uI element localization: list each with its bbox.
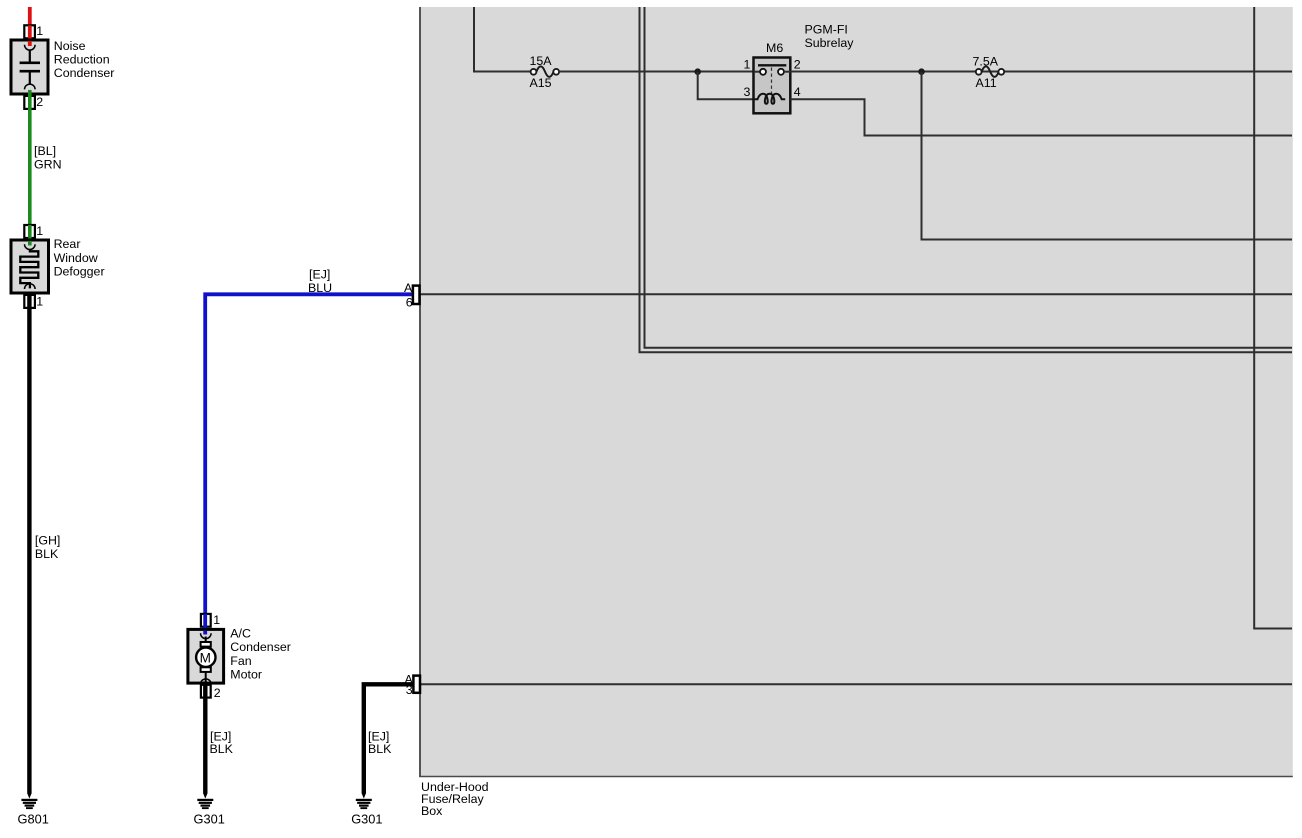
svg-text:1: 1 — [744, 57, 751, 71]
relay pin number 2 — [794, 57, 801, 71]
wire [EJ] BLK (fuse box A3 ground) — [364, 684, 413, 793]
svg-text:2: 2 — [36, 95, 43, 109]
svg-text:BLK: BLK — [368, 742, 392, 756]
relay contact terminal pin 2 — [778, 69, 790, 75]
fuse A15 15A — [530, 54, 560, 90]
wire: fuse A15 output to relay pin 1 — [558, 71, 753, 73]
under-hood fuse/relay box — [419, 7, 1293, 777]
svg-text:4: 4 — [794, 85, 801, 99]
svg-text:G301: G301 — [351, 812, 382, 827]
wire: double bus line inner — [645, 7, 1293, 348]
svg-text:Subrelay: Subrelay — [805, 36, 855, 50]
svg-text:A/C: A/C — [230, 627, 251, 641]
svg-text:2: 2 — [214, 686, 221, 700]
relay pin number 3 — [744, 85, 751, 99]
svg-text:1: 1 — [213, 613, 220, 627]
relay contact terminal pin 1 — [754, 69, 767, 75]
wire: red battery feed — [28, 7, 32, 44]
svg-text:7.5A: 7.5A — [973, 54, 999, 68]
relay coil — [755, 94, 786, 104]
svg-text:PGM-FI: PGM-FI — [805, 22, 848, 36]
svg-text:3: 3 — [406, 683, 413, 697]
wire: connector A3 feed across box — [420, 683, 1292, 685]
svg-text:M6: M6 — [766, 41, 783, 55]
svg-text:[EJ]: [EJ] — [309, 268, 330, 282]
svg-text:M: M — [200, 650, 211, 665]
connector pin 1 (lower) of rear window defogger — [24, 294, 43, 308]
svg-text:Motor: Motor — [230, 667, 262, 681]
svg-text:Noise: Noise — [54, 39, 86, 53]
wire: relay pin 4 branch to right edge — [790, 99, 1292, 135]
relay pin number 1 — [744, 57, 751, 71]
connector pin 1 of rear window defogger — [24, 224, 43, 243]
svg-text:2: 2 — [794, 57, 801, 71]
svg-text:BLK: BLK — [35, 547, 59, 561]
fuse A11 7.5A — [973, 54, 1005, 90]
svg-text:A: A — [404, 281, 413, 295]
svg-text:A15: A15 — [530, 76, 552, 90]
svg-text:15A: 15A — [530, 54, 553, 68]
svg-text:1: 1 — [36, 224, 43, 238]
connector A6 on fuse box — [404, 281, 420, 310]
svg-text:Box: Box — [421, 804, 443, 818]
svg-text:Condenser: Condenser — [54, 66, 115, 80]
svg-text:1: 1 — [36, 24, 43, 38]
svg-text:A11: A11 — [976, 76, 997, 90]
wire: junction down to relay pin 3 — [698, 72, 753, 100]
svg-text:G301: G301 — [194, 812, 225, 827]
wire: junction branch down and right — [922, 72, 1293, 240]
connector pin 1 of noise reduction condenser — [24, 24, 43, 44]
wire: relay pin 2 to fuse A11 and right edge — [790, 71, 1292, 73]
svg-text:BLU: BLU — [308, 281, 332, 295]
svg-text:Rear: Rear — [54, 237, 81, 251]
svg-text:Condenser: Condenser — [230, 640, 291, 654]
wire [BL] GRN — [30, 90, 62, 243]
relay contact bar — [758, 64, 786, 66]
relay M6 PGM-FI Subrelay — [754, 22, 855, 113]
connector pin 2 of noise reduction condenser — [24, 95, 43, 109]
wire: right vertical bus — [1254, 7, 1292, 629]
svg-text:[GH]: [GH] — [35, 533, 60, 547]
component: Rear Window Defogger — [11, 237, 105, 293]
wire: double bus line outer — [640, 7, 1293, 352]
svg-text:Window: Window — [54, 251, 98, 265]
svg-text:6: 6 — [406, 295, 413, 309]
component: Noise Reduction Condenser — [11, 39, 114, 94]
svg-text:Reduction: Reduction — [54, 52, 110, 66]
relay pin number 4 — [794, 85, 801, 99]
svg-text:GRN: GRN — [34, 157, 62, 171]
wire [EJ] BLK (fan motor ground) — [205, 682, 233, 794]
node: junction before fuse A11 — [918, 68, 925, 75]
svg-text:3: 3 — [744, 85, 751, 99]
connector pin 1 of A/C condenser fan motor — [201, 613, 220, 633]
component: A/C Condenser Fan Motor — [188, 627, 291, 685]
svg-text:Fan: Fan — [230, 654, 251, 668]
relay armature dashed link — [771, 68, 773, 97]
ground G301 (fuse box) — [351, 793, 382, 827]
wire: connector A6 feed across box — [420, 293, 1292, 295]
wire [EJ] BLU — [205, 268, 413, 633]
svg-text:Defogger: Defogger — [54, 264, 105, 278]
svg-text:BLK: BLK — [210, 742, 234, 756]
ground G801 — [18, 793, 49, 827]
ground G301 (fan motor) — [194, 793, 225, 827]
svg-text:G801: G801 — [18, 812, 49, 827]
wire: feed into fuse A15 (vertical from box top) — [474, 7, 532, 72]
label: Under-Hood Fuse/Relay Box — [421, 780, 489, 818]
connector A3 on fuse box — [405, 672, 421, 697]
node: junction at relay coil branch — [694, 68, 701, 75]
wire [GH] BLK — [29, 295, 60, 794]
svg-text:1: 1 — [36, 294, 43, 308]
svg-text:[BL]: [BL] — [34, 144, 56, 158]
connector pin 2 of A/C condenser fan motor — [201, 685, 221, 700]
